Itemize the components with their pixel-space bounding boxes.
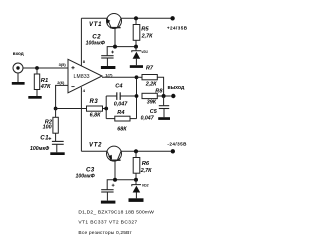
svg-text:100мкФ: 100мкФ — [30, 146, 50, 152]
svg-text:R6: R6 — [142, 161, 150, 167]
svg-text:100мкФ: 100мкФ — [86, 41, 106, 47]
svg-text:C5: C5 — [150, 109, 158, 115]
svg-text:1(7): 1(7) — [105, 72, 113, 77]
svg-text:3(5): 3(5) — [59, 62, 67, 67]
svg-text:R3: R3 — [90, 99, 99, 105]
svg-text:C2: C2 — [92, 34, 101, 41]
svg-text:VD2: VD2 — [142, 183, 149, 187]
svg-text:4: 4 — [83, 88, 86, 93]
svg-text:2,7К: 2,7К — [140, 168, 152, 174]
svg-text:C1: C1 — [40, 134, 49, 141]
svg-text:выход: выход — [168, 85, 185, 91]
svg-text:C3: C3 — [86, 167, 95, 174]
svg-text:D1,D2_ BZX79C18 18В 500mW: D1,D2_ BZX79C18 18В 500mW — [78, 210, 154, 216]
svg-text:C4: C4 — [115, 84, 123, 90]
svg-text:39К: 39К — [147, 100, 157, 106]
svg-text:VT2: VT2 — [89, 142, 102, 148]
svg-text:100: 100 — [43, 125, 52, 131]
svg-text:VT1: VT1 — [89, 22, 102, 28]
svg-text:0,047: 0,047 — [141, 115, 155, 121]
svg-text:-24/35В: -24/35В — [167, 142, 187, 147]
svg-text:LM833: LM833 — [74, 74, 90, 80]
svg-text:68К: 68К — [117, 127, 127, 133]
svg-text:100мкФ: 100мкФ — [76, 174, 96, 180]
svg-text:2(6): 2(6) — [57, 80, 65, 85]
svg-text:0,047: 0,047 — [114, 101, 128, 107]
svg-text:R8: R8 — [155, 88, 163, 94]
svg-text:вход: вход — [13, 51, 24, 56]
svg-text:47К: 47К — [40, 84, 51, 90]
svg-text:R7: R7 — [146, 66, 154, 72]
svg-text:R4: R4 — [117, 110, 125, 116]
svg-text:R5: R5 — [141, 27, 149, 33]
svg-text:+24/35В: +24/35В — [167, 26, 188, 31]
svg-text:2,2К: 2,2К — [145, 82, 157, 88]
svg-text:Все резисторы 0,25Вт: Все резисторы 0,25Вт — [78, 230, 132, 236]
svg-text:2,7К: 2,7К — [141, 33, 153, 39]
svg-text:6,8К: 6,8К — [90, 113, 101, 119]
svg-text:VT1 BC337 VT2 BC327: VT1 BC337 VT2 BC327 — [78, 220, 137, 226]
svg-text:VD1: VD1 — [141, 50, 148, 54]
svg-text:8: 8 — [83, 59, 86, 64]
